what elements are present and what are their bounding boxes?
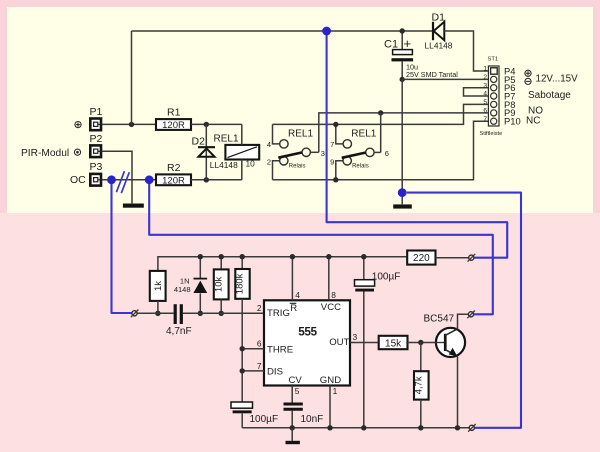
wire NC bus to pin7 [273, 121, 489, 180]
junction ground blue [398, 188, 407, 197]
svg-text:2: 2 [267, 157, 271, 166]
capacitor 100uF right [355, 257, 401, 428]
svg-text:TRIG: TRIG [267, 308, 290, 319]
blue wire V+ to 220 pad [327, 35, 508, 258]
svg-text:3: 3 [321, 149, 325, 158]
wire P2 to ground [102, 151, 132, 203]
supply minus symbol [525, 78, 531, 84]
resistor R1 [156, 107, 191, 131]
svg-text:OUT: OUT [329, 337, 349, 348]
supply plus symbol [525, 70, 531, 76]
wire coil bottom stem [241, 160, 243, 180]
junction OC blue left [107, 175, 116, 184]
wire commons to pin6 [319, 113, 489, 152]
junction common2 [378, 110, 383, 115]
svg-text:6: 6 [257, 339, 262, 349]
blue wire ground to bottom rail [407, 193, 521, 428]
svg-text:7: 7 [330, 140, 334, 149]
junction pin4 [290, 254, 295, 259]
terminal pad V+ [468, 254, 476, 262]
bottom rail 555 [242, 427, 469, 429]
terminal pad ground out [468, 424, 476, 432]
svg-text:Sabotage: Sabotage [528, 90, 571, 101]
svg-text:P2: P2 [90, 133, 103, 145]
svg-text:1k: 1k [153, 281, 164, 291]
svg-text:3: 3 [353, 332, 358, 342]
svg-text:R: R [290, 303, 297, 314]
svg-text:7: 7 [257, 361, 262, 371]
wire trigger line right [183, 312, 264, 314]
pad P3 [90, 161, 103, 185]
connector pin labels P4-P10 [504, 66, 521, 127]
svg-text:4: 4 [267, 140, 271, 149]
junction 10k bottom [219, 311, 224, 316]
wire R1 to coil [191, 123, 242, 125]
svg-text:120R: 120R [162, 120, 185, 131]
wire V+ riser [131, 31, 133, 124]
svg-text:3: 3 [483, 82, 487, 89]
wire DIS [242, 370, 264, 372]
junction base [418, 340, 423, 345]
relay coil REL1 [214, 133, 260, 168]
svg-text:15k: 15k [385, 338, 402, 349]
ground C1 [393, 197, 412, 209]
svg-text:PIR-Modul: PIR-Modul [21, 148, 69, 159]
svg-text:6: 6 [385, 149, 389, 158]
svg-text:P3: P3 [90, 161, 103, 173]
svg-text:Relais: Relais [289, 164, 306, 170]
svg-text:7: 7 [483, 116, 487, 123]
resistor R2 [156, 162, 191, 186]
wire top V+ bus [132, 30, 434, 32]
555 pin numbers [257, 290, 358, 396]
svg-text:9: 9 [330, 157, 334, 166]
capacitor 10nF [284, 386, 324, 428]
junction contact2 top [333, 122, 338, 127]
svg-text:4,7nF: 4,7nF [166, 326, 192, 337]
junction P1 riser [129, 122, 134, 127]
capacitor C1 [384, 31, 458, 79]
junction diode top [198, 254, 203, 259]
junction 4,7k bottom [418, 425, 423, 430]
svg-text:LL4148: LL4148 [210, 160, 238, 170]
svg-text:2: 2 [257, 303, 262, 313]
svg-text:ST1: ST1 [488, 57, 499, 63]
connector ST1 [480, 57, 503, 138]
svg-text:1: 1 [483, 66, 487, 73]
svg-text:10nF: 10nF [301, 414, 324, 425]
svg-text:4: 4 [483, 91, 487, 98]
svg-text:D1: D1 [432, 12, 446, 24]
wire GND pin1 stem [329, 386, 331, 428]
wire C1 minus down [401, 79, 403, 197]
svg-text:2: 2 [483, 74, 487, 81]
svg-text:LL4148: LL4148 [425, 40, 453, 50]
svg-text:25V SMD Tantal: 25V SMD Tantal [406, 70, 458, 79]
svg-text:100µF: 100µF [372, 272, 401, 283]
transistor BC547 [424, 313, 466, 357]
junction 180k top [240, 254, 245, 259]
resistor 180k [235, 257, 250, 402]
junction C1 top [400, 28, 405, 33]
junction diode bottom [198, 311, 203, 316]
wire 15k to base [408, 342, 445, 344]
diode D1 [425, 12, 453, 51]
wire emitter [457, 356, 459, 428]
junction 1k bottom [155, 311, 160, 316]
wire sabotage loop pins 3-4 [464, 88, 489, 96]
svg-text:6: 6 [483, 108, 487, 115]
IC 555 [264, 300, 350, 386]
svg-text:555: 555 [298, 325, 317, 339]
svg-text:REL1: REL1 [351, 129, 376, 140]
svg-text:12V...15V: 12V...15V [536, 73, 579, 84]
svg-text:10: 10 [246, 159, 256, 169]
svg-text:VCC: VCC [321, 302, 341, 313]
svg-text:5: 5 [295, 386, 300, 396]
svg-text:REL1: REL1 [214, 133, 239, 144]
svg-text:Relais: Relais [352, 164, 369, 170]
svg-text:100µF: 100µF [250, 414, 279, 425]
svg-text:C1: C1 [384, 39, 398, 51]
junction V+ blue [322, 27, 331, 36]
junction pin1 [327, 425, 332, 430]
svg-text:180k: 180k [235, 273, 246, 294]
svg-text:P10: P10 [504, 116, 521, 127]
cable slash marks [116, 171, 129, 193]
wire VCC pin8 stem [328, 257, 330, 301]
wire R2 to coil [191, 179, 242, 181]
diode 1N4148 [174, 257, 207, 314]
junction CV bottom [290, 425, 295, 430]
junction pin8 [326, 254, 331, 259]
wire reset pin4 stem [291, 257, 293, 301]
svg-text:R2: R2 [167, 162, 181, 174]
svg-text:NC: NC [526, 116, 540, 127]
wire D1 to pin1 [444, 31, 488, 71]
resistor 1k [150, 271, 166, 313]
resistor 220 [407, 251, 469, 265]
resistor 4,7k [413, 343, 428, 428]
wire P3 OC line [102, 179, 156, 181]
svg-text:D2: D2 [192, 135, 206, 147]
svg-text:4: 4 [295, 290, 300, 300]
wire OUT [350, 342, 379, 344]
junction contact2 bottom [333, 177, 338, 182]
svg-text:CV: CV [289, 375, 303, 386]
svg-text:+: + [404, 36, 412, 51]
resistor 10k [214, 257, 229, 314]
svg-text:220: 220 [413, 253, 430, 264]
capacitor 100uF left [231, 402, 278, 428]
relay contact group 1 [267, 124, 325, 179]
wire trigger line [137, 312, 173, 314]
pad P2 [90, 133, 103, 157]
pad P1 [90, 106, 103, 130]
svg-text:4148: 4148 [174, 285, 191, 294]
terminal symbol out [74, 149, 80, 155]
svg-text:5: 5 [483, 99, 487, 106]
svg-text:DIS: DIS [267, 366, 283, 377]
blue wire OC to trigger pad [112, 184, 132, 313]
terminal symbol plus [75, 122, 81, 128]
svg-text:P1: P1 [90, 106, 103, 118]
ground 555 [286, 428, 300, 444]
junction 100uF top [361, 254, 366, 259]
wire THRE [242, 348, 264, 350]
diode D2 [192, 124, 239, 179]
junction 100uF bottom [361, 425, 366, 430]
svg-text:REL1: REL1 [288, 129, 313, 140]
junction THRE [240, 346, 245, 351]
junction OC blue right [145, 175, 154, 184]
terminal pad trigger [131, 310, 139, 318]
svg-text:8: 8 [331, 290, 336, 300]
wire NO bus to pin5 [273, 104, 489, 124]
terminal pad collector [467, 311, 475, 319]
connector pin numbers [483, 66, 487, 123]
blue wire OC to collector pad [149, 184, 493, 314]
junction C1 bottom [400, 77, 405, 82]
wire common2 riser [380, 113, 382, 152]
junction emitter [455, 425, 460, 430]
svg-text:THRE: THRE [267, 344, 293, 355]
junction D2 top [204, 122, 209, 127]
svg-text:OC: OC [70, 174, 86, 186]
capacitor 4,7nF [166, 304, 192, 337]
wire P1 to R1 [102, 123, 156, 125]
svg-text:4,7k: 4,7k [413, 376, 424, 394]
top supply rail 555 [158, 257, 407, 271]
svg-text:GND: GND [320, 375, 341, 386]
wire coil top stem [241, 124, 243, 144]
svg-text:1: 1 [333, 386, 338, 396]
svg-text:R1: R1 [167, 107, 181, 119]
relay contact group 2 [330, 124, 389, 179]
ground PIR module [123, 204, 144, 208]
junction 10k top [219, 254, 224, 259]
svg-text:120R: 120R [162, 175, 185, 186]
svg-text:Stiftleiste: Stiftleiste [480, 131, 503, 137]
wire C1 to pin2 [402, 78, 488, 80]
svg-text:10k: 10k [214, 276, 225, 292]
junction DIS [240, 368, 245, 373]
svg-text:BC547: BC547 [424, 313, 455, 324]
resistor 15k [379, 336, 408, 350]
junction D2 bottom [204, 177, 209, 182]
wire collector [458, 314, 469, 329]
